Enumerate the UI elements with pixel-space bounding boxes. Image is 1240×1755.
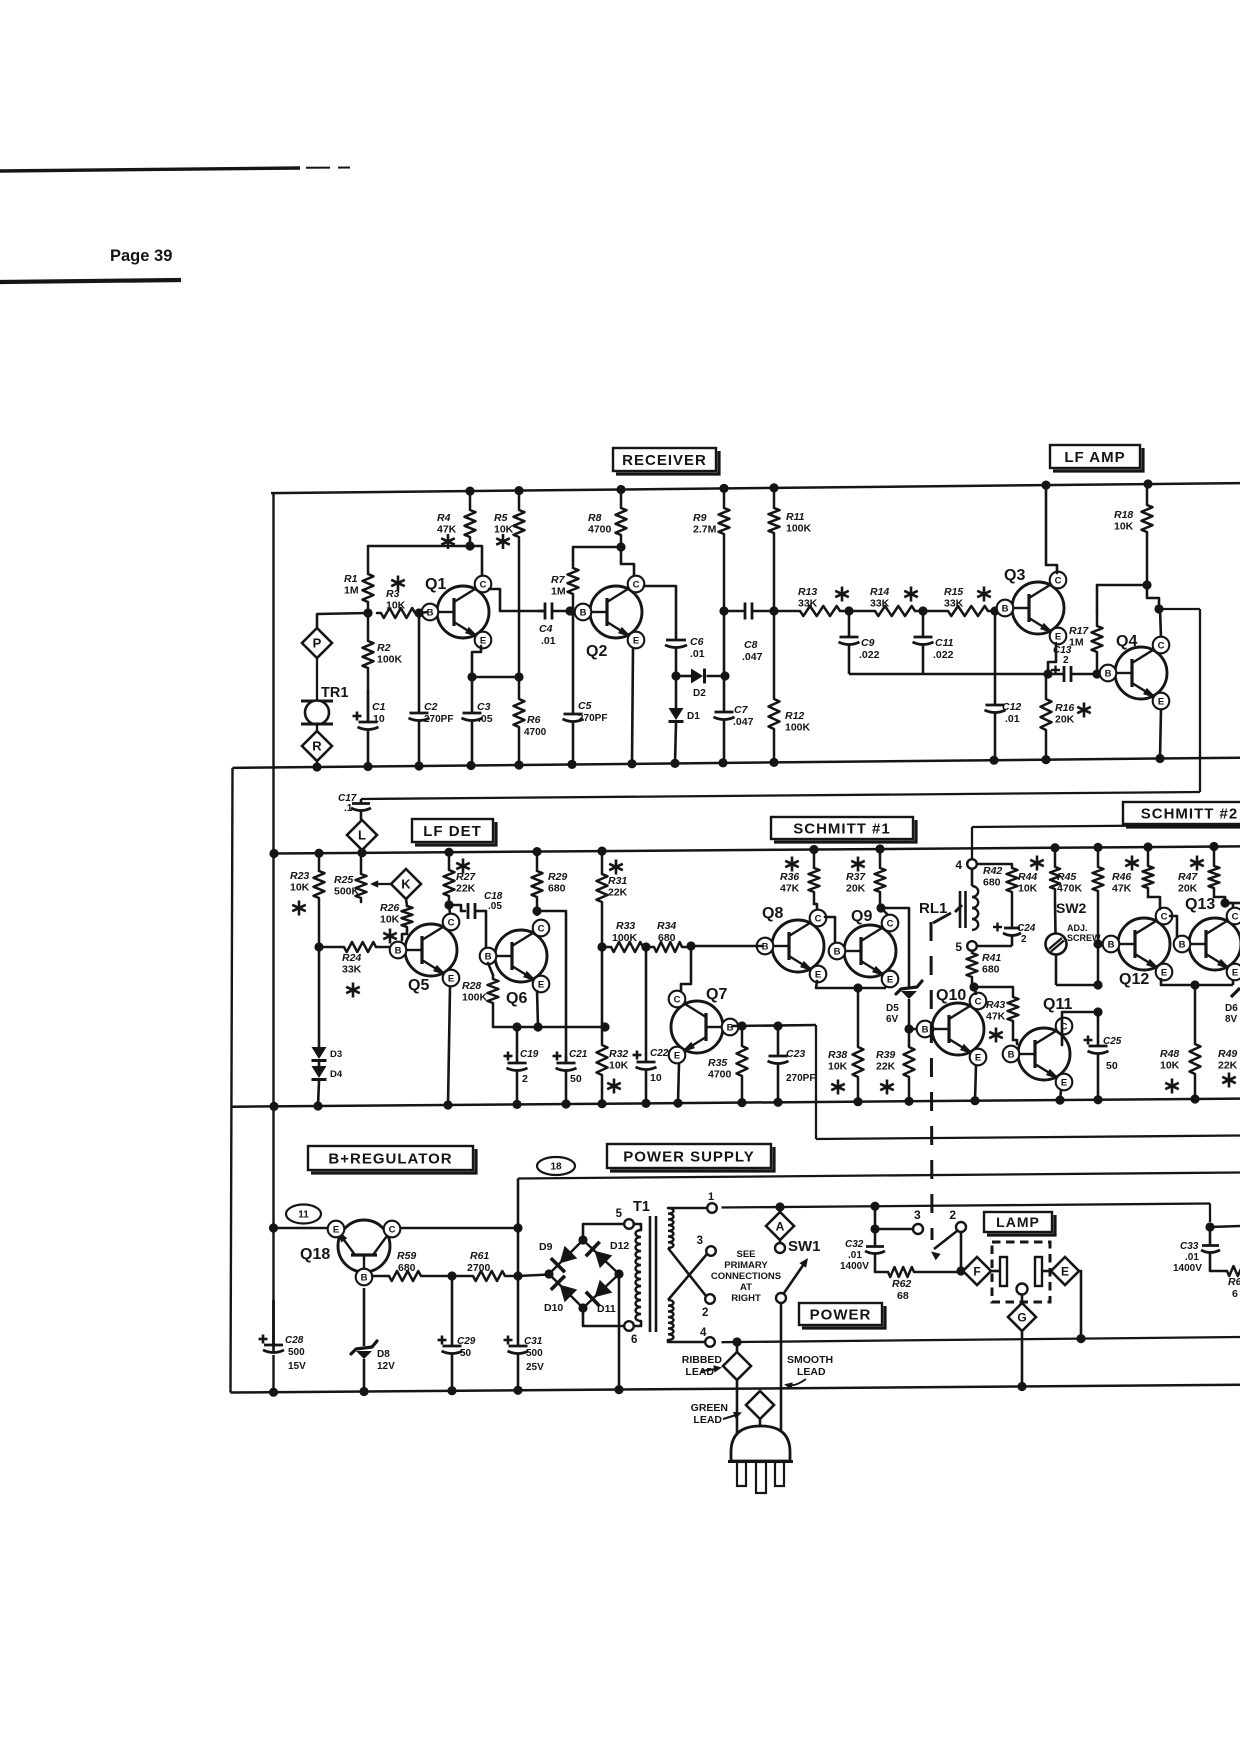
- svg-text:270PF: 270PF: [786, 1073, 815, 1084]
- svg-text:R5: R5: [494, 512, 508, 524]
- svg-text:2: 2: [1063, 655, 1069, 666]
- resistor R59: [372, 1250, 452, 1281]
- resistor R32: [597, 1027, 629, 1104]
- switch SW1 arm: [776, 1258, 808, 1303]
- resistor R43: [986, 987, 1019, 1044]
- label box LF AMP: [1050, 445, 1143, 471]
- svg-text:E: E: [975, 1052, 981, 1063]
- node bridge left: [544, 1269, 553, 1278]
- resistor R6: [514, 677, 547, 765]
- node LF rail R37: [875, 844, 884, 853]
- wire bridge top to 5: [583, 1224, 624, 1240]
- wire Q3 emitter down: [1048, 643, 1056, 674]
- dashed relay linkage line: [931, 922, 932, 1240]
- svg-text:D1: D1: [687, 711, 700, 722]
- transformer T1 core: [650, 1216, 656, 1332]
- resistor R31: [597, 851, 628, 947]
- svg-text:R46: R46: [1112, 871, 1131, 883]
- svg-text:B: B: [922, 1024, 929, 1035]
- node top rail R8: [616, 485, 625, 494]
- svg-text:Q9: Q9: [851, 908, 872, 925]
- svg-text:Q8: Q8: [762, 905, 783, 922]
- node LF rail R31: [597, 847, 606, 856]
- resistor R36: [780, 850, 820, 905]
- wire R15 to Q3 base: [995, 609, 1003, 611]
- wire R47 node to Q13 collector: [1225, 903, 1233, 909]
- node LF rail R23: [314, 849, 323, 858]
- wire transformer tap 4 line: [722, 1337, 1240, 1342]
- svg-text:R25: R25: [334, 874, 353, 886]
- svg-text:A: A: [776, 1219, 785, 1233]
- svg-text:20K: 20K: [846, 883, 866, 895]
- node Q1 base / C2: [414, 608, 423, 617]
- node D2 right: [720, 671, 729, 680]
- node C21 rail: [561, 1099, 570, 1108]
- terminal F diamond: [961, 1257, 991, 1285]
- node bridge right: [614, 1269, 623, 1278]
- resistor R39: [876, 1046, 915, 1101]
- node C19 rail: [512, 1100, 521, 1109]
- wire bridge right down: [618, 1274, 621, 1390]
- svg-text:47K: 47K: [780, 883, 800, 895]
- node LF rail left end: [269, 849, 278, 858]
- svg-text:50: 50: [1106, 1060, 1118, 1072]
- transistor Q12: [1103, 908, 1173, 988]
- svg-text:5: 5: [616, 1208, 623, 1220]
- terminal 5: [955, 940, 976, 954]
- wire R27 node to Q5 collector: [449, 905, 450, 914]
- diode D12: [586, 1240, 630, 1268]
- node bridge top: [578, 1235, 587, 1244]
- svg-text:680: 680: [658, 932, 676, 944]
- lamp electrode right: [1035, 1257, 1051, 1286]
- resistor R49 labels: [1218, 1048, 1238, 1088]
- svg-text:R16: R16: [1055, 702, 1074, 714]
- svg-text:1M: 1M: [551, 586, 566, 598]
- label box SCHMITT #2: [1123, 802, 1240, 827]
- resistor R8: [588, 490, 627, 548]
- wire R17 top to R18: [1097, 584, 1147, 587]
- svg-text:C3: C3: [477, 701, 491, 713]
- svg-text:500: 500: [288, 1347, 305, 1358]
- resistor R34: [646, 920, 691, 952]
- svg-text:R47: R47: [1178, 871, 1198, 883]
- svg-text:680: 680: [983, 877, 1001, 889]
- node Q7 emitter rail: [673, 1099, 682, 1108]
- wire Q18 base down: [363, 1288, 366, 1346]
- resistor R5: [494, 491, 525, 677]
- transistor Q3: [997, 567, 1067, 644]
- svg-text:B: B: [1179, 939, 1186, 950]
- svg-text:C28: C28: [285, 1335, 304, 1346]
- resistor R45: [1057, 847, 1104, 985]
- wire to terminal 3: [875, 1228, 913, 1231]
- svg-text:33K: 33K: [944, 598, 964, 610]
- wire R45 to Q12 base: [1098, 943, 1109, 946]
- svg-text:B: B: [834, 946, 841, 957]
- svg-text:R29: R29: [548, 871, 567, 883]
- svg-text:50: 50: [570, 1073, 582, 1085]
- wire C18 to Q6 base: [485, 911, 488, 947]
- node Q4 emitter rail: [1155, 754, 1164, 763]
- svg-text:E: E: [1158, 696, 1164, 707]
- node R31 R33: [597, 942, 606, 951]
- wire Q10 emitter to rail: [975, 1065, 976, 1101]
- resistor R29: [532, 852, 568, 911]
- svg-text:C5: C5: [578, 700, 592, 712]
- capacitor C9: [839, 611, 880, 674]
- svg-text:SEE: SEE: [736, 1249, 755, 1260]
- node Q11 emitter rail: [1055, 1096, 1064, 1105]
- svg-text:10K: 10K: [290, 882, 310, 894]
- svg-text:D6: D6: [1225, 1003, 1238, 1014]
- svg-text:10K: 10K: [380, 914, 400, 926]
- resistor R13: [775, 586, 849, 616]
- svg-text:D11: D11: [597, 1303, 616, 1315]
- capacitor C32: [840, 1229, 885, 1272]
- transistor Q1: [422, 576, 492, 649]
- svg-text:C29: C29: [457, 1336, 476, 1347]
- svg-text:C2: C2: [424, 701, 438, 713]
- svg-text:.01: .01: [1005, 713, 1020, 725]
- svg-text:B: B: [361, 1272, 368, 1283]
- node C23 rail: [773, 1098, 782, 1107]
- svg-text:680: 680: [398, 1262, 416, 1274]
- svg-text:Q7: Q7: [706, 986, 727, 1003]
- svg-text:B+REGULATOR: B+REGULATOR: [328, 1150, 452, 1167]
- node R38 top: [853, 983, 862, 992]
- svg-text:D12: D12: [610, 1240, 629, 1252]
- label R44: [1018, 856, 1044, 895]
- wire R31 column to Q6 line: [601, 947, 604, 1027]
- svg-text:3: 3: [914, 1208, 921, 1222]
- svg-text:SCHMITT #2: SCHMITT #2: [1141, 805, 1239, 822]
- diode D10: [544, 1276, 577, 1314]
- node D8 rail: [359, 1387, 368, 1396]
- node Q2 emitter rail: [627, 759, 636, 768]
- node G wire rail: [1017, 1382, 1026, 1391]
- node R13 C9: [844, 606, 853, 615]
- node C7 rail: [718, 758, 727, 767]
- diode D2: [676, 669, 725, 700]
- wire Q4 collector lead: [1160, 609, 1161, 638]
- svg-text:C8: C8: [744, 639, 758, 651]
- terminal 2: [949, 1208, 966, 1232]
- wire bridge edges: [549, 1240, 619, 1308]
- resistor R33: [602, 920, 646, 952]
- capacitor C8: [724, 603, 775, 664]
- transistor Q4: [1100, 633, 1170, 709]
- node R62 F junction: [956, 1266, 965, 1275]
- svg-text:Q18: Q18: [300, 1246, 330, 1263]
- svg-text:.047: .047: [733, 716, 754, 728]
- wire R41 node to R43: [974, 986, 1013, 989]
- svg-text:G: G: [1017, 1310, 1026, 1324]
- resistor R61: [452, 1250, 518, 1281]
- svg-text:LAMP: LAMP: [996, 1214, 1040, 1230]
- svg-text:Q1: Q1: [425, 576, 446, 593]
- label box RECEIVER: [613, 448, 719, 474]
- svg-text:2700: 2700: [467, 1262, 491, 1274]
- node R38 rail: [853, 1097, 862, 1106]
- wire Q8 collector to Q9 base: [825, 917, 835, 951]
- wire Q13 emitter down: [1232, 979, 1235, 985]
- resistor R14: [849, 586, 923, 616]
- terminal K diamond: [391, 869, 421, 899]
- wire R9 node to D2 node: [723, 611, 726, 676]
- switch power arm: [931, 1231, 957, 1260]
- potentiometer R25: [334, 853, 392, 902]
- node R59 C29: [447, 1271, 456, 1280]
- svg-text:SMOOTH: SMOOTH: [787, 1354, 833, 1366]
- node R14 C11: [918, 606, 927, 615]
- transformer T1 primary: [634, 1224, 641, 1326]
- wire C17 line to Q4 collector: [361, 609, 1200, 799]
- zener D5: [886, 981, 922, 1046]
- wire cross tap3: [668, 1254, 707, 1300]
- svg-text:E: E: [1232, 967, 1238, 978]
- svg-text:R43: R43: [986, 999, 1005, 1011]
- svg-text:T1: T1: [633, 1199, 650, 1215]
- svg-text:Q12: Q12: [1119, 971, 1149, 988]
- svg-text:10: 10: [650, 1072, 662, 1084]
- node top rail R5: [514, 486, 523, 495]
- terminal green diamond: [746, 1391, 774, 1428]
- wire to Q2 base: [570, 611, 581, 612]
- wire G diamond down: [1021, 1331, 1024, 1387]
- text ribbed lead: [682, 1354, 723, 1378]
- svg-text:R12: R12: [785, 710, 804, 722]
- resistor R16: [1041, 674, 1091, 760]
- terminal ribbed diamond: [723, 1342, 751, 1434]
- svg-text:R17: R17: [1069, 625, 1089, 637]
- wire transformer tap 1 line: [722, 1204, 1211, 1223]
- svg-text:R4: R4: [437, 512, 451, 524]
- svg-text:100K: 100K: [377, 654, 403, 666]
- relay RL1: [919, 886, 978, 930]
- svg-text:C12: C12: [1002, 701, 1021, 713]
- svg-text:33K: 33K: [342, 964, 362, 976]
- svg-text:C: C: [674, 994, 681, 1005]
- node R47 bottom: [1220, 898, 1229, 907]
- node R48 top: [1190, 980, 1199, 989]
- svg-text:R49: R49: [1218, 1048, 1237, 1060]
- transistor Q11: [1003, 996, 1073, 1090]
- svg-text:100K: 100K: [462, 992, 488, 1004]
- svg-text:Q11: Q11: [1043, 996, 1072, 1013]
- label box B+REGULATOR: [308, 1146, 476, 1173]
- svg-text:B: B: [485, 951, 492, 962]
- svg-text:10K: 10K: [609, 1060, 629, 1072]
- node R35 rail: [737, 1098, 746, 1107]
- wire oval-18 line: [518, 1173, 1240, 1179]
- svg-text:5: 5: [955, 940, 962, 954]
- node C5 rail: [567, 760, 576, 769]
- wire R4 node to Q1 collector: [470, 546, 482, 576]
- node tap4 ribbed: [732, 1337, 741, 1346]
- svg-text:C9: C9: [861, 637, 875, 649]
- svg-text:20K: 20K: [1178, 883, 1198, 895]
- svg-text:.022: .022: [933, 649, 954, 661]
- capacitor C23: [768, 1026, 816, 1102]
- node C32 circle3 junction: [870, 1224, 879, 1233]
- svg-text:LF AMP: LF AMP: [1064, 449, 1125, 466]
- node tap1 line A diamond: [775, 1202, 784, 1211]
- resistor R48: [1160, 985, 1201, 1099]
- capacitor C6: [665, 636, 705, 676]
- terminal G diamond: [1008, 1303, 1036, 1331]
- capacitor C22: [633, 947, 669, 1103]
- switch SW2: [1046, 848, 1102, 985]
- svg-text:R26: R26: [380, 902, 399, 914]
- svg-text:4700: 4700: [588, 524, 612, 536]
- wire Q2 collector right: [644, 586, 676, 639]
- node C31 rail: [513, 1386, 522, 1395]
- wire Q11 collector wire: [1062, 1012, 1098, 1045]
- svg-text:10: 10: [373, 713, 385, 725]
- svg-text:25V: 25V: [526, 1362, 544, 1373]
- wire R8 node to Q2 collector: [621, 547, 634, 577]
- svg-text:D10: D10: [544, 1302, 563, 1314]
- svg-text:L: L: [358, 828, 366, 843]
- svg-text:POWER SUPPLY: POWER SUPPLY: [623, 1148, 754, 1165]
- wire R29 node to Q6 collector: [536, 911, 539, 916]
- transistor Q2: [575, 576, 645, 660]
- resistor R38: [828, 988, 864, 1102]
- wire R61 to bridge: [518, 1275, 549, 1277]
- svg-text:Q13: Q13: [1185, 896, 1215, 913]
- wire Q1 collector to C4: [489, 589, 545, 611]
- svg-text:E: E: [1161, 967, 1167, 978]
- node C28 rail: [269, 1388, 278, 1397]
- svg-text:.01: .01: [848, 1250, 862, 1261]
- svg-text:C21: C21: [569, 1049, 588, 1060]
- svg-text:SW1: SW1: [788, 1238, 821, 1255]
- capacitor C31: [504, 1336, 545, 1391]
- node R5 R6 junction: [514, 672, 523, 681]
- terminal A diamond SW1: [766, 1207, 821, 1255]
- node R18 bottom: [1142, 580, 1151, 589]
- resistor R24: [319, 942, 395, 998]
- label box POWER SUPPLY: [607, 1144, 774, 1171]
- wire terminal 2 down: [960, 1232, 963, 1271]
- svg-text:11: 11: [298, 1210, 309, 1221]
- svg-text:TR1: TR1: [321, 685, 348, 701]
- transistor Q7: [669, 986, 739, 1063]
- resistor R15: [923, 586, 995, 616]
- wire Q1 emitter to C3: [472, 646, 481, 677]
- svg-text:R11: R11: [786, 511, 805, 523]
- svg-text:12V: 12V: [377, 1361, 395, 1372]
- svg-text:10K: 10K: [386, 600, 406, 612]
- svg-text:10K: 10K: [1160, 1060, 1180, 1072]
- svg-text:R13: R13: [798, 586, 817, 598]
- svg-text:R37: R37: [846, 871, 866, 883]
- label box LAMP: [984, 1212, 1055, 1235]
- svg-text:R39: R39: [876, 1049, 895, 1061]
- svg-text:Q3: Q3: [1004, 567, 1025, 584]
- svg-text:R45: R45: [1057, 871, 1076, 883]
- wire E diamond down: [1079, 1271, 1081, 1339]
- node Q4 collector wire: [1154, 604, 1163, 613]
- wire Q7 base line to power area: [816, 1025, 1240, 1139]
- svg-text:R9: R9: [693, 512, 707, 524]
- node bridge bottom: [578, 1303, 587, 1312]
- node R15 C12: [990, 606, 999, 615]
- transducer P terminal: [302, 628, 332, 658]
- transformer T1 label: [633, 1199, 650, 1215]
- svg-text:C: C: [538, 923, 545, 934]
- node top rail Q3 collector: [1041, 481, 1050, 490]
- svg-text:R31: R31: [608, 875, 627, 887]
- node TR1 bottom rail: [312, 762, 321, 771]
- svg-text:R59: R59: [397, 1250, 416, 1262]
- capacitor C29: [438, 1276, 476, 1391]
- node LF rail R47: [1209, 842, 1218, 851]
- svg-text:15V: 15V: [288, 1361, 306, 1372]
- svg-text:R34: R34: [657, 920, 676, 932]
- svg-text:1M: 1M: [344, 585, 359, 597]
- wire bridge bottom to 6: [583, 1308, 624, 1326]
- svg-text:C11: C11: [935, 637, 954, 649]
- svg-text:D5: D5: [886, 1003, 899, 1014]
- svg-text:C: C: [887, 918, 894, 929]
- wire node 4 to R42: [977, 863, 1013, 866]
- svg-text:500K: 500K: [334, 886, 360, 898]
- zener D8: [351, 1341, 395, 1392]
- svg-text:C: C: [1158, 640, 1165, 651]
- terminal tap 1: [707, 1191, 717, 1213]
- resistor R47: [1178, 847, 1225, 904]
- page header rule top: [0, 168, 350, 172]
- wire Q3 collector to rail: [1046, 485, 1057, 573]
- lamp dashed enclosure: [992, 1242, 1050, 1302]
- svg-text:2.7M: 2.7M: [693, 524, 717, 536]
- resistor R42: [983, 864, 1018, 928]
- terminal tap 3: [697, 1235, 716, 1256]
- svg-text:C: C: [975, 996, 982, 1007]
- resistor R46: [1112, 847, 1160, 909]
- wire Q8 emitter down: [816, 981, 817, 988]
- svg-text:R6: R6: [1228, 1276, 1240, 1288]
- resistor R27: [444, 852, 477, 905]
- node R45 Q12 base: [1093, 939, 1102, 948]
- diode D3: [312, 947, 343, 1061]
- label box SCHMITT #1: [771, 817, 916, 842]
- diode D11: [586, 1280, 616, 1315]
- svg-text:R33: R33: [616, 920, 635, 932]
- node R23 R24: [314, 942, 323, 951]
- svg-text:POWER: POWER: [810, 1306, 872, 1323]
- capacitor C2: [409, 613, 454, 766]
- svg-text:C24: C24: [1017, 923, 1036, 934]
- svg-text:D4: D4: [330, 1069, 343, 1080]
- svg-text:AT: AT: [740, 1282, 752, 1293]
- svg-text:SW2: SW2: [1056, 900, 1087, 916]
- wire Q18 collector line: [400, 1227, 518, 1230]
- svg-text:D3: D3: [330, 1049, 342, 1060]
- svg-text:R2: R2: [377, 642, 391, 654]
- node Q18 emitter left: [269, 1223, 278, 1232]
- svg-text:B: B: [727, 1022, 734, 1033]
- node R37 Q9 collector: [876, 903, 885, 912]
- capacitor C17: [338, 793, 371, 820]
- transformer T1 secondary top: [668, 1208, 707, 1248]
- wire SW2 bottom to R45: [1056, 984, 1098, 987]
- svg-text:R14: R14: [870, 586, 889, 598]
- resistor R17: [1069, 585, 1103, 674]
- lamp electrode left: [991, 1257, 1007, 1286]
